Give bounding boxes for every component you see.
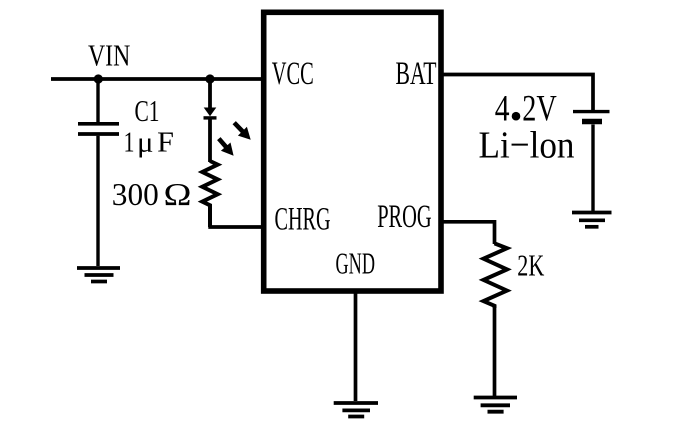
wire PROG pin to R2 xyxy=(441,222,495,244)
wire VIN rail to VCC pin xyxy=(51,77,263,81)
svg-text:C1: C1 xyxy=(135,93,160,128)
wire BAT pin to battery xyxy=(441,75,593,111)
C1 reference label xyxy=(135,93,160,128)
resistor R2 2K xyxy=(484,243,508,308)
C1 value label 1uF xyxy=(124,128,175,159)
wire R1 to CHRG pin xyxy=(208,225,263,229)
R2 value label 2K xyxy=(517,247,544,282)
svg-text:BAT: BAT xyxy=(396,56,437,92)
VIN net label xyxy=(88,38,130,73)
pin label GND xyxy=(336,245,376,280)
svg-text:Li−lon: Li−lon xyxy=(479,125,575,167)
pin label CHRG xyxy=(275,202,331,238)
pin label PROG xyxy=(377,199,432,235)
svg-text:μ: μ xyxy=(137,128,154,159)
wire GND pin to ground xyxy=(354,291,358,401)
svg-text:4: 4 xyxy=(495,89,510,130)
ground symbol at R2 xyxy=(474,398,517,412)
battery value label 4.2V xyxy=(495,89,557,130)
battery BT1 xyxy=(573,112,610,211)
IC U1 charger xyxy=(264,12,441,291)
ground symbol at IC GND xyxy=(334,403,378,417)
ground symbol at C1 xyxy=(77,268,120,282)
svg-text:300: 300 xyxy=(112,177,159,212)
wire R2 to ground xyxy=(493,307,497,396)
node junction at LED branch xyxy=(205,74,214,83)
svg-text:PROG: PROG xyxy=(377,199,432,235)
ground symbol at battery xyxy=(572,213,612,227)
svg-text:Ω: Ω xyxy=(164,177,192,212)
svg-text:GND: GND xyxy=(336,245,376,280)
pin label BAT xyxy=(396,56,437,92)
svg-text:2K: 2K xyxy=(517,247,544,282)
R1 value label 300ohm xyxy=(112,177,192,212)
battery type label Li-lon xyxy=(479,125,575,167)
svg-text:VIN: VIN xyxy=(88,38,130,73)
pin label VCC xyxy=(272,56,314,92)
capacitor C1 xyxy=(78,79,119,266)
svg-text:CHRG: CHRG xyxy=(275,202,331,238)
resistor R1 300ohm xyxy=(202,161,217,227)
svg-text:2V: 2V xyxy=(522,89,557,130)
node junction at C1 xyxy=(94,74,103,83)
svg-text:1: 1 xyxy=(124,128,135,159)
svg-text:F: F xyxy=(157,128,174,159)
svg-text:VCC: VCC xyxy=(272,56,314,92)
LED D1 (charge indicator) xyxy=(204,79,251,162)
